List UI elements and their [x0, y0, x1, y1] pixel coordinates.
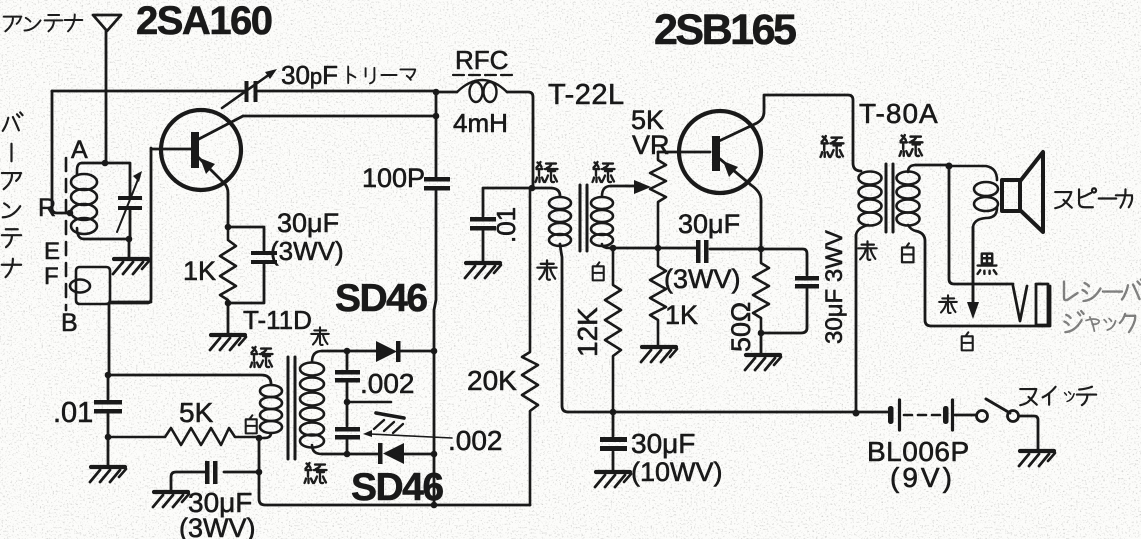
node R tap junction	[67, 210, 74, 217]
node speaker junction	[946, 163, 953, 170]
wire detector output rail	[433, 351, 436, 505]
coupling winding B (bar antenna secondary)	[70, 267, 110, 304]
wire junction to ground	[128, 239, 131, 258]
wire supply bus	[568, 411, 888, 414]
ground (switch)	[1019, 451, 1055, 466]
switch スイッチ	[977, 411, 988, 422]
wire to ground	[760, 333, 763, 354]
transformer T-80A core	[886, 164, 893, 232]
node detector top junction	[105, 372, 112, 379]
node .01 bottom junction	[105, 434, 112, 441]
wire emitter node to cap	[228, 227, 264, 250]
inductor RFC 4mH	[436, 91, 457, 94]
bar antenna core (dashed)	[65, 158, 68, 310]
node 12K bottom junction	[610, 409, 617, 416]
transformer T-22L secondary	[591, 186, 613, 248]
wire D1 cathode	[400, 350, 434, 353]
wire red lead to jack	[949, 166, 1013, 284]
diode D2 SD46	[378, 443, 383, 464]
wire trimmer top line	[52, 90, 436, 93]
wire white lead to jack sleeve	[916, 231, 1050, 326]
label 白 (T-80A secondary bottom)	[902, 243, 914, 262]
wire secondary bottom	[322, 453, 378, 456]
ground (.01)	[90, 467, 126, 482]
resistor 1K (emitter Q1)	[220, 227, 236, 303]
wire D2 anode to right rail	[404, 453, 434, 456]
label バーアンテナ (bar antenna, vertical)	[2, 112, 23, 277]
label 緑 (T-80A secondary top)	[900, 135, 923, 156]
capacitor 100P	[424, 177, 450, 191]
ground (tuning circuit)	[113, 259, 149, 274]
speaker voice coil	[949, 166, 997, 180]
label スイッチ	[1020, 387, 1096, 405]
ground (30uF 10WV)	[595, 472, 631, 487]
capacitor .01 (2nd)	[483, 188, 532, 216]
resistor 1K (Q2 bias)	[650, 248, 666, 346]
speaker SP	[1002, 152, 1043, 232]
wire secondary top	[322, 350, 376, 353]
capacitor 30uF (3WV) series	[224, 471, 259, 474]
label 白 (jack)	[962, 332, 973, 350]
wire junction to ground	[107, 437, 110, 466]
node VR bottom junction	[655, 245, 662, 252]
node rail junctions	[431, 348, 438, 355]
ground (Q1 emitter)	[210, 335, 246, 350]
node battery junction	[853, 410, 860, 417]
label 白 (T-11D primary tap)	[246, 415, 257, 433]
node emitter junction	[758, 246, 765, 253]
trimmer capacitor C 30pF	[245, 81, 258, 102]
wire 5K node down	[258, 438, 261, 472]
node 30uF junction	[256, 469, 263, 476]
diode D1 SD46	[376, 341, 397, 362]
transformer T-80A primary	[856, 172, 882, 236]
wire bottom bus	[259, 472, 530, 505]
wire wiper arrow to VR	[611, 185, 634, 188]
node antenna-coil junction	[102, 160, 109, 167]
wire emitter bus	[610, 248, 807, 275]
label 赤 (jack)	[939, 295, 957, 313]
battery BL006P	[888, 406, 949, 424]
label .002 (lower) with pointer	[370, 434, 452, 438]
ground (.01 2nd)	[465, 263, 501, 278]
resistor 5K	[108, 428, 259, 445]
node 50ohm bottom junction	[758, 330, 765, 337]
node trimmer/RFC junction	[433, 89, 440, 96]
wire coil bottom	[84, 209, 130, 239]
node emitter junction	[225, 224, 232, 231]
node collector wire junction	[433, 113, 440, 120]
wire RFC rail down	[435, 92, 438, 177]
capacitor 30uF (emitter bypass)	[251, 251, 277, 264]
ground (detector, slanted)	[374, 413, 404, 433]
node diode D1 anode junction	[344, 348, 351, 355]
wire secondary top to speaker node	[916, 164, 949, 167]
capacitor .01 (AGC)	[107, 375, 110, 399]
transformer T-11D core	[288, 357, 295, 459]
node D2 junction	[344, 451, 351, 458]
wire to ground	[227, 303, 230, 334]
transformer T-22L core	[580, 185, 587, 251]
label 赤 (T-11D secondary top)	[311, 327, 329, 345]
transformer T-80A secondary	[897, 165, 920, 231]
label 赤 (T-80A primary bottom)	[858, 241, 876, 259]
label 緑 (T-11D secondary bottom)	[305, 463, 327, 483]
wire black lead plug arrow	[972, 227, 975, 303]
transformer T-11D secondary	[300, 351, 324, 454]
antenna symbol	[93, 15, 121, 163]
node RFC bottom junction	[529, 185, 536, 192]
ground (50ohm)	[745, 355, 781, 370]
wire B coil to base line	[110, 301, 151, 304]
node 5K right junction	[256, 435, 263, 442]
transistor Q1 2SA160	[151, 110, 243, 227]
transformer T-22L primary	[532, 188, 560, 196]
label 緑 (T-80A primary top)	[821, 136, 844, 157]
ground (1K)	[641, 347, 677, 362]
wire Q2 collector top	[765, 95, 861, 171]
node .002 junction	[344, 399, 351, 406]
wire left drop to R tap	[52, 91, 69, 213]
capacitor 30uF (3WV) series in bus	[696, 240, 709, 263]
node cap bottom junction	[126, 236, 133, 243]
label 白 (T-22L secondary bottom)	[593, 262, 604, 280]
node T-22L secondary bottom junction	[610, 245, 617, 252]
node 1K bottom junction	[225, 300, 232, 307]
label レシーバ ジャック	[1064, 280, 1141, 302]
label スピーカ	[1055, 188, 1132, 208]
capacitor .002 (lower)	[346, 402, 349, 426]
label 緑 (T-11D primary top)	[251, 347, 273, 367]
resistor 20K	[522, 188, 538, 505]
label 緑 (T-22L secondary top)	[593, 162, 615, 182]
resistor 12K	[605, 248, 621, 412]
resistor 50ohm	[753, 249, 769, 333]
label 黒	[978, 254, 997, 274]
wire coil top to variable cap	[82, 163, 130, 196]
wire base down	[110, 148, 151, 303]
bar antenna tuning coil L1	[71, 163, 97, 239]
capacitor 30uF (10WV)	[612, 412, 615, 436]
ground (30uF)	[153, 492, 189, 507]
label アンテナ (antenna)	[4, 15, 83, 32]
wire switch to ground	[1020, 416, 1038, 449]
wire to slanted ground	[347, 401, 391, 404]
transistor Q2 2SB165	[658, 95, 764, 248]
variable capacitor (tuning)	[118, 196, 142, 210]
wire B coil down to detector node	[108, 304, 111, 375]
transformer T-11D primary	[259, 385, 282, 438]
label 赤 (T-22L primary bottom)	[537, 260, 556, 279]
capacitor .002 (upper)	[346, 351, 349, 369]
label 緑 (T-22L primary top)	[536, 162, 558, 182]
resistor VR 5K	[650, 152, 666, 248]
wire to T-11D primary top	[108, 375, 271, 384]
wire T-80A primary bottom (red)	[855, 235, 858, 413]
receiver jack contacts	[1013, 286, 1027, 321]
capacitor 30uF 3WV (emitter bypass)	[795, 276, 819, 289]
wire collector to RFC node	[243, 115, 436, 118]
